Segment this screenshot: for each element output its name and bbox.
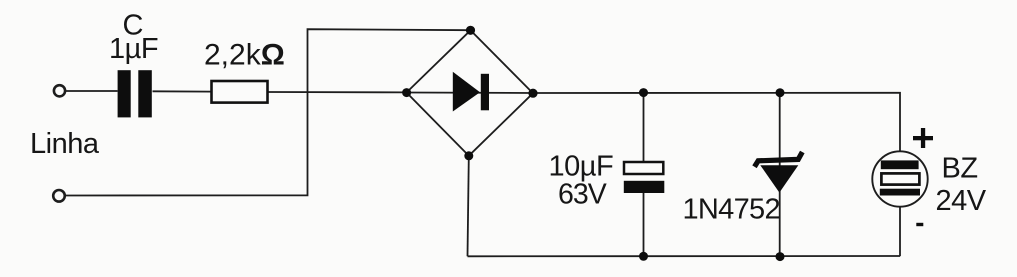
label plus (913, 128, 933, 148)
svg-text:BZ: BZ (942, 153, 978, 185)
node bridge right (528, 89, 537, 98)
buzzer BZ body (872, 151, 927, 206)
wire T2 right then up then to bridge top (66, 29, 470, 195)
capacitor C2 bottom plate (624, 181, 665, 193)
node junction bottom rail zener (776, 252, 785, 261)
wire bridge bottom node down (468, 156, 469, 256)
wire C to R1 (153, 90, 212, 92)
capacitor C2 top plate (624, 162, 663, 174)
wire zener branch (779, 93, 781, 257)
buzzer top electrode (881, 160, 919, 169)
wire bridge edge bottom-left (407, 93, 469, 156)
label minus (916, 223, 923, 226)
wire bridge edge bottom-right (469, 93, 533, 156)
wire bridge edge top-left (407, 30, 471, 92)
svg-text:63V: 63V (558, 179, 607, 211)
terminal T1 (Linha upper) (54, 85, 65, 96)
svg-text:2,2kΩ: 2,2kΩ (204, 39, 285, 72)
wire filter cap lower lead (643, 193, 645, 257)
wire T1 to C (66, 90, 118, 92)
wire filter cap upper lead (643, 93, 645, 163)
zener diode Z1 triangle (760, 165, 798, 192)
wire top rail bridge right to buzzer corner (533, 93, 900, 162)
buzzer bottom electrode (880, 189, 920, 196)
wire bridge inner horizontal (407, 92, 534, 95)
node junction bottom rail C2 (639, 252, 648, 261)
node bridge bottom (464, 151, 473, 160)
node junction top rail zener (776, 88, 785, 97)
wire R1 to bridge left node (268, 91, 408, 93)
wire buzzer lower lead (899, 194, 901, 256)
buzzer middle electrode (881, 173, 919, 184)
terminal T2 (Linha lower) (53, 190, 65, 202)
node bridge left (402, 88, 411, 97)
wire bridge edge top-right (471, 30, 534, 93)
bridge diode D1 (453, 72, 489, 112)
resistor R1 (212, 81, 268, 103)
wire bottom rail (468, 255, 901, 257)
capacitor C plates (118, 70, 152, 117)
svg-text:24V: 24V (936, 185, 987, 217)
zener diode Z1 cathode bar (755, 152, 803, 167)
node junction top rail C2 (639, 88, 648, 97)
svg-text:Linha: Linha (30, 128, 100, 160)
svg-text:1µF: 1µF (109, 33, 158, 65)
svg-text:1N4752: 1N4752 (683, 194, 780, 226)
node bridge top (466, 26, 475, 35)
